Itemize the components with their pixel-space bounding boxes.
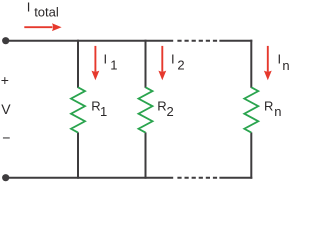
svg-text:1: 1 — [100, 104, 107, 119]
wire: bottom rail solid right segment — [219, 177, 252, 179]
label R1 — [91, 98, 107, 118]
label R2 — [157, 98, 174, 119]
svg-text:2: 2 — [167, 104, 174, 119]
svg-text:R: R — [157, 98, 166, 113]
label I2 — [171, 52, 185, 73]
label In — [278, 52, 290, 73]
svg-text:+: + — [1, 72, 9, 88]
wire: branch n bottom lead (corner with bottom rail) — [250, 132, 252, 178]
wire: bottom rail dashed segment — [177, 177, 217, 179]
svg-text:1: 1 — [110, 57, 117, 72]
current arrow In (red, pointing down) — [264, 46, 272, 80]
wire: bottom rail solid left segment — [6, 177, 174, 179]
svg-text:total: total — [34, 4, 59, 19]
current arrow I2 (red, pointing down) — [158, 46, 166, 80]
wire: branch 1 bottom lead — [77, 132, 79, 178]
node: positive terminal (top-left dot) — [2, 37, 9, 44]
resistor R1 (zigzag) — [71, 87, 85, 132]
svg-text:2: 2 — [177, 58, 184, 73]
wire: top rail solid left segment — [6, 40, 174, 42]
svg-text:I: I — [171, 52, 175, 67]
label I_total — [27, 0, 59, 19]
node: negative terminal (bottom-left dot) — [2, 174, 9, 181]
current arrow I1 (red, pointing down) — [92, 46, 100, 80]
svg-text:n: n — [274, 104, 281, 119]
wire: branch 2 bottom lead — [145, 132, 147, 178]
wire: branch 1 top lead — [77, 40, 79, 88]
svg-text:−: − — [2, 129, 10, 145]
label I1 — [104, 52, 118, 73]
svg-text:n: n — [282, 58, 289, 73]
wire: top rail dashed segment — [177, 40, 217, 42]
current arrow I_total (red, pointing right) — [24, 23, 61, 31]
wire: branch n top lead (right edge, corner with top rail) — [250, 40, 252, 88]
svg-text:I: I — [278, 52, 282, 67]
svg-text:R: R — [264, 98, 273, 113]
resistor R2 (zigzag) — [139, 87, 153, 132]
svg-text:V: V — [1, 101, 11, 117]
svg-text:I: I — [104, 52, 108, 67]
wire: top rail solid right segment — [219, 40, 252, 42]
wire: branch 2 top lead — [145, 40, 147, 88]
resistor Rn (zigzag) — [244, 87, 258, 132]
label Rn — [264, 98, 282, 119]
svg-text:I: I — [27, 0, 31, 15]
